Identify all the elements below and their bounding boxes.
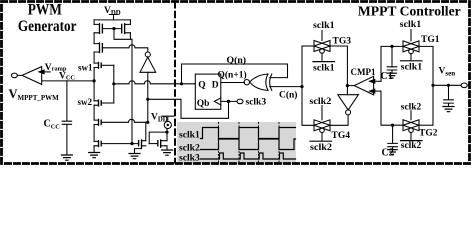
capacitor Ccc [62,81,71,155]
wire clock lead to sclk3 [221,100,237,102]
svg-text:sclk3: sclk3 [246,98,267,108]
svg-text:CMP1: CMP1 [351,67,376,77]
wire Q(n) riser and top line [182,64,288,84]
wire top rail [94,19,130,21]
current source IB [164,121,171,128]
wire XNOR top input [270,77,288,79]
wire M6 gate line to inverter input (hop over x132) [101,119,148,122]
transistor M7 [98,141,100,147]
wire Q drive line to FF (hops over x132 and x147.4) [114,81,196,84]
wire M8 source to ground [135,147,142,153]
clock triangle pin [214,98,221,105]
wire D input lead [221,82,245,84]
wire chain M6-M7 [93,125,95,142]
svg-text:sclk3: sclk3 [179,152,200,163]
svg-text:TG2: TG2 [419,128,438,138]
wire chain M3-sw1 [93,52,95,63]
svg-text:sclk1: sclk1 [313,62,335,73]
waveform dotted separators [219,123,280,164]
wire INV2 output to TG4 [330,115,348,125]
wire XNOR bottom input C(n) [270,86,302,88]
divider between PWM Generator and MPPT Controller [174,2,176,163]
transistor M8 [141,140,143,147]
transistor sw2 [98,100,100,106]
wire M8-M9 gate riser [149,132,166,144]
transistor M1 (mirror PMOS left) [99,24,101,34]
svg-text:sclk1: sclk1 [401,62,423,73]
wire M2 drain long vertical [131,39,133,143]
svg-text:Q(n+1): Q(n+1) [218,69,247,80]
svg-text:Generator: Generator [18,18,77,35]
svg-text:Q: Q [198,81,205,91]
ground under M9 [162,150,173,155]
transmission gate TG3 [314,41,330,52]
transistor M6 [98,119,100,125]
wire right rail top riser [381,46,403,81]
wire chain sw1-sw2 [93,68,95,101]
svg-text:sw1: sw1 [78,62,93,72]
ground under M8 [129,154,140,159]
waveform sclk2 [201,139,296,150]
ground under C1 [388,73,397,78]
wire comparator output [17,74,22,76]
svg-text:PWM: PWM [28,2,62,19]
svg-text:TG1: TG1 [421,35,440,45]
svg-text:Q(n): Q(n) [227,55,247,66]
waveform sclk1 [201,128,296,139]
label sclk2bar (TG4) [310,140,332,142]
svg-text:D: D [212,81,219,91]
ground under Cout [443,107,454,112]
wire M9 source to ground [166,146,168,150]
terminal sclk3 oval [237,99,243,104]
label sclk2bar (TG2) [401,140,423,142]
wire gate tie to M2 drain [114,29,132,40]
label sclk1bar (TG1) [401,60,423,62]
wire Vcc line [42,80,94,82]
wire M7-M8 gate line [101,143,138,145]
op-amp CMP1 [354,76,373,95]
wire M2 source up [129,20,131,25]
wire TG4 left lead [302,124,314,126]
ground under M7 [89,153,100,158]
wire M3 gate line to inverter bubble (hop over x132) [102,45,147,52]
transistor M9 [160,140,162,147]
capacitor C2 [388,125,398,149]
wire TG2 right [419,124,433,126]
wire gate bus sw1-sw2 [113,65,115,103]
label sclk1bar (TG3) [313,61,335,63]
svg-text:C2: C2 [382,147,394,158]
svg-text:TG3: TG3 [333,36,352,46]
waveform box background [177,122,296,164]
wire M9 drain up to current source [166,129,168,141]
svg-text:TG4: TG4 [332,131,351,141]
wire M7 source to ground [93,146,95,153]
wire M1 source / chain top [93,20,95,25]
wire right rail bottom riser [381,91,403,125]
terminal Vsen oval [461,83,467,88]
ground under Ccc [61,155,72,160]
wire Vsen output [433,84,460,86]
svg-text:sclk2: sclk2 [309,96,331,107]
wire M8 drain up [145,122,147,140]
svg-text:sclk2: sclk2 [310,142,332,153]
wire CMP1 minus input arrow [374,90,381,92]
waveform sclk3 [201,153,296,159]
svg-text:sw2: sw2 [78,97,93,107]
capacitor C1 [387,46,397,73]
svg-text:Qb: Qb [197,99,210,109]
capacitor Cout [444,85,454,106]
flip-flop U1 box [195,74,221,109]
wire chain M1-M3 [93,33,95,44]
gate XNOR body (faces left) [250,74,268,90]
power VDD bar [109,15,117,20]
gate XNOR bubble [244,80,249,85]
wire CMP1 output stub [347,85,354,87]
transmission gate TG4 [314,120,330,131]
border frame [2,2,470,164]
wire loop from clock node to inverter column [148,99,229,118]
comparator PWM [22,67,42,85]
wire INV1 input down [147,72,149,122]
svg-text:sclk2: sclk2 [401,140,422,151]
svg-text:sclk1: sclk1 [179,129,200,140]
wire TG3 right to CMP1 output node [330,46,347,95]
svg-text:C(n): C(n) [279,89,297,100]
svg-text:sclk1: sclk1 [400,19,422,30]
transistor M2 (mirror PMOS right, diode tied) [124,24,126,34]
wire CMP1 plus input arrow [374,80,381,82]
power VDD bar mid [162,116,174,121]
inverter INV1 [145,52,150,57]
wire chain sw2-M6 [93,105,95,120]
node Vramp arrow input [43,71,50,73]
wire TG3 left lead [302,45,314,47]
ground under C2 [388,150,397,155]
transistor M3 [99,43,101,53]
wire C(n) vertical TG3-TG4 [301,46,303,124]
svg-text:sclk1: sclk1 [313,20,335,31]
svg-text:sclk2: sclk2 [401,102,422,113]
svg-text:MPPT Controller: MPPT Controller [358,4,461,19]
transmission gate TG1 [403,41,419,52]
wire TG1 right to Vsen rail [419,46,433,125]
inverter INV2 [338,95,359,110]
transmission gate TG2 [403,120,419,131]
transistor sw1 [98,62,100,68]
terminal output oval [11,73,17,78]
wire M9 gate lead [149,143,158,145]
